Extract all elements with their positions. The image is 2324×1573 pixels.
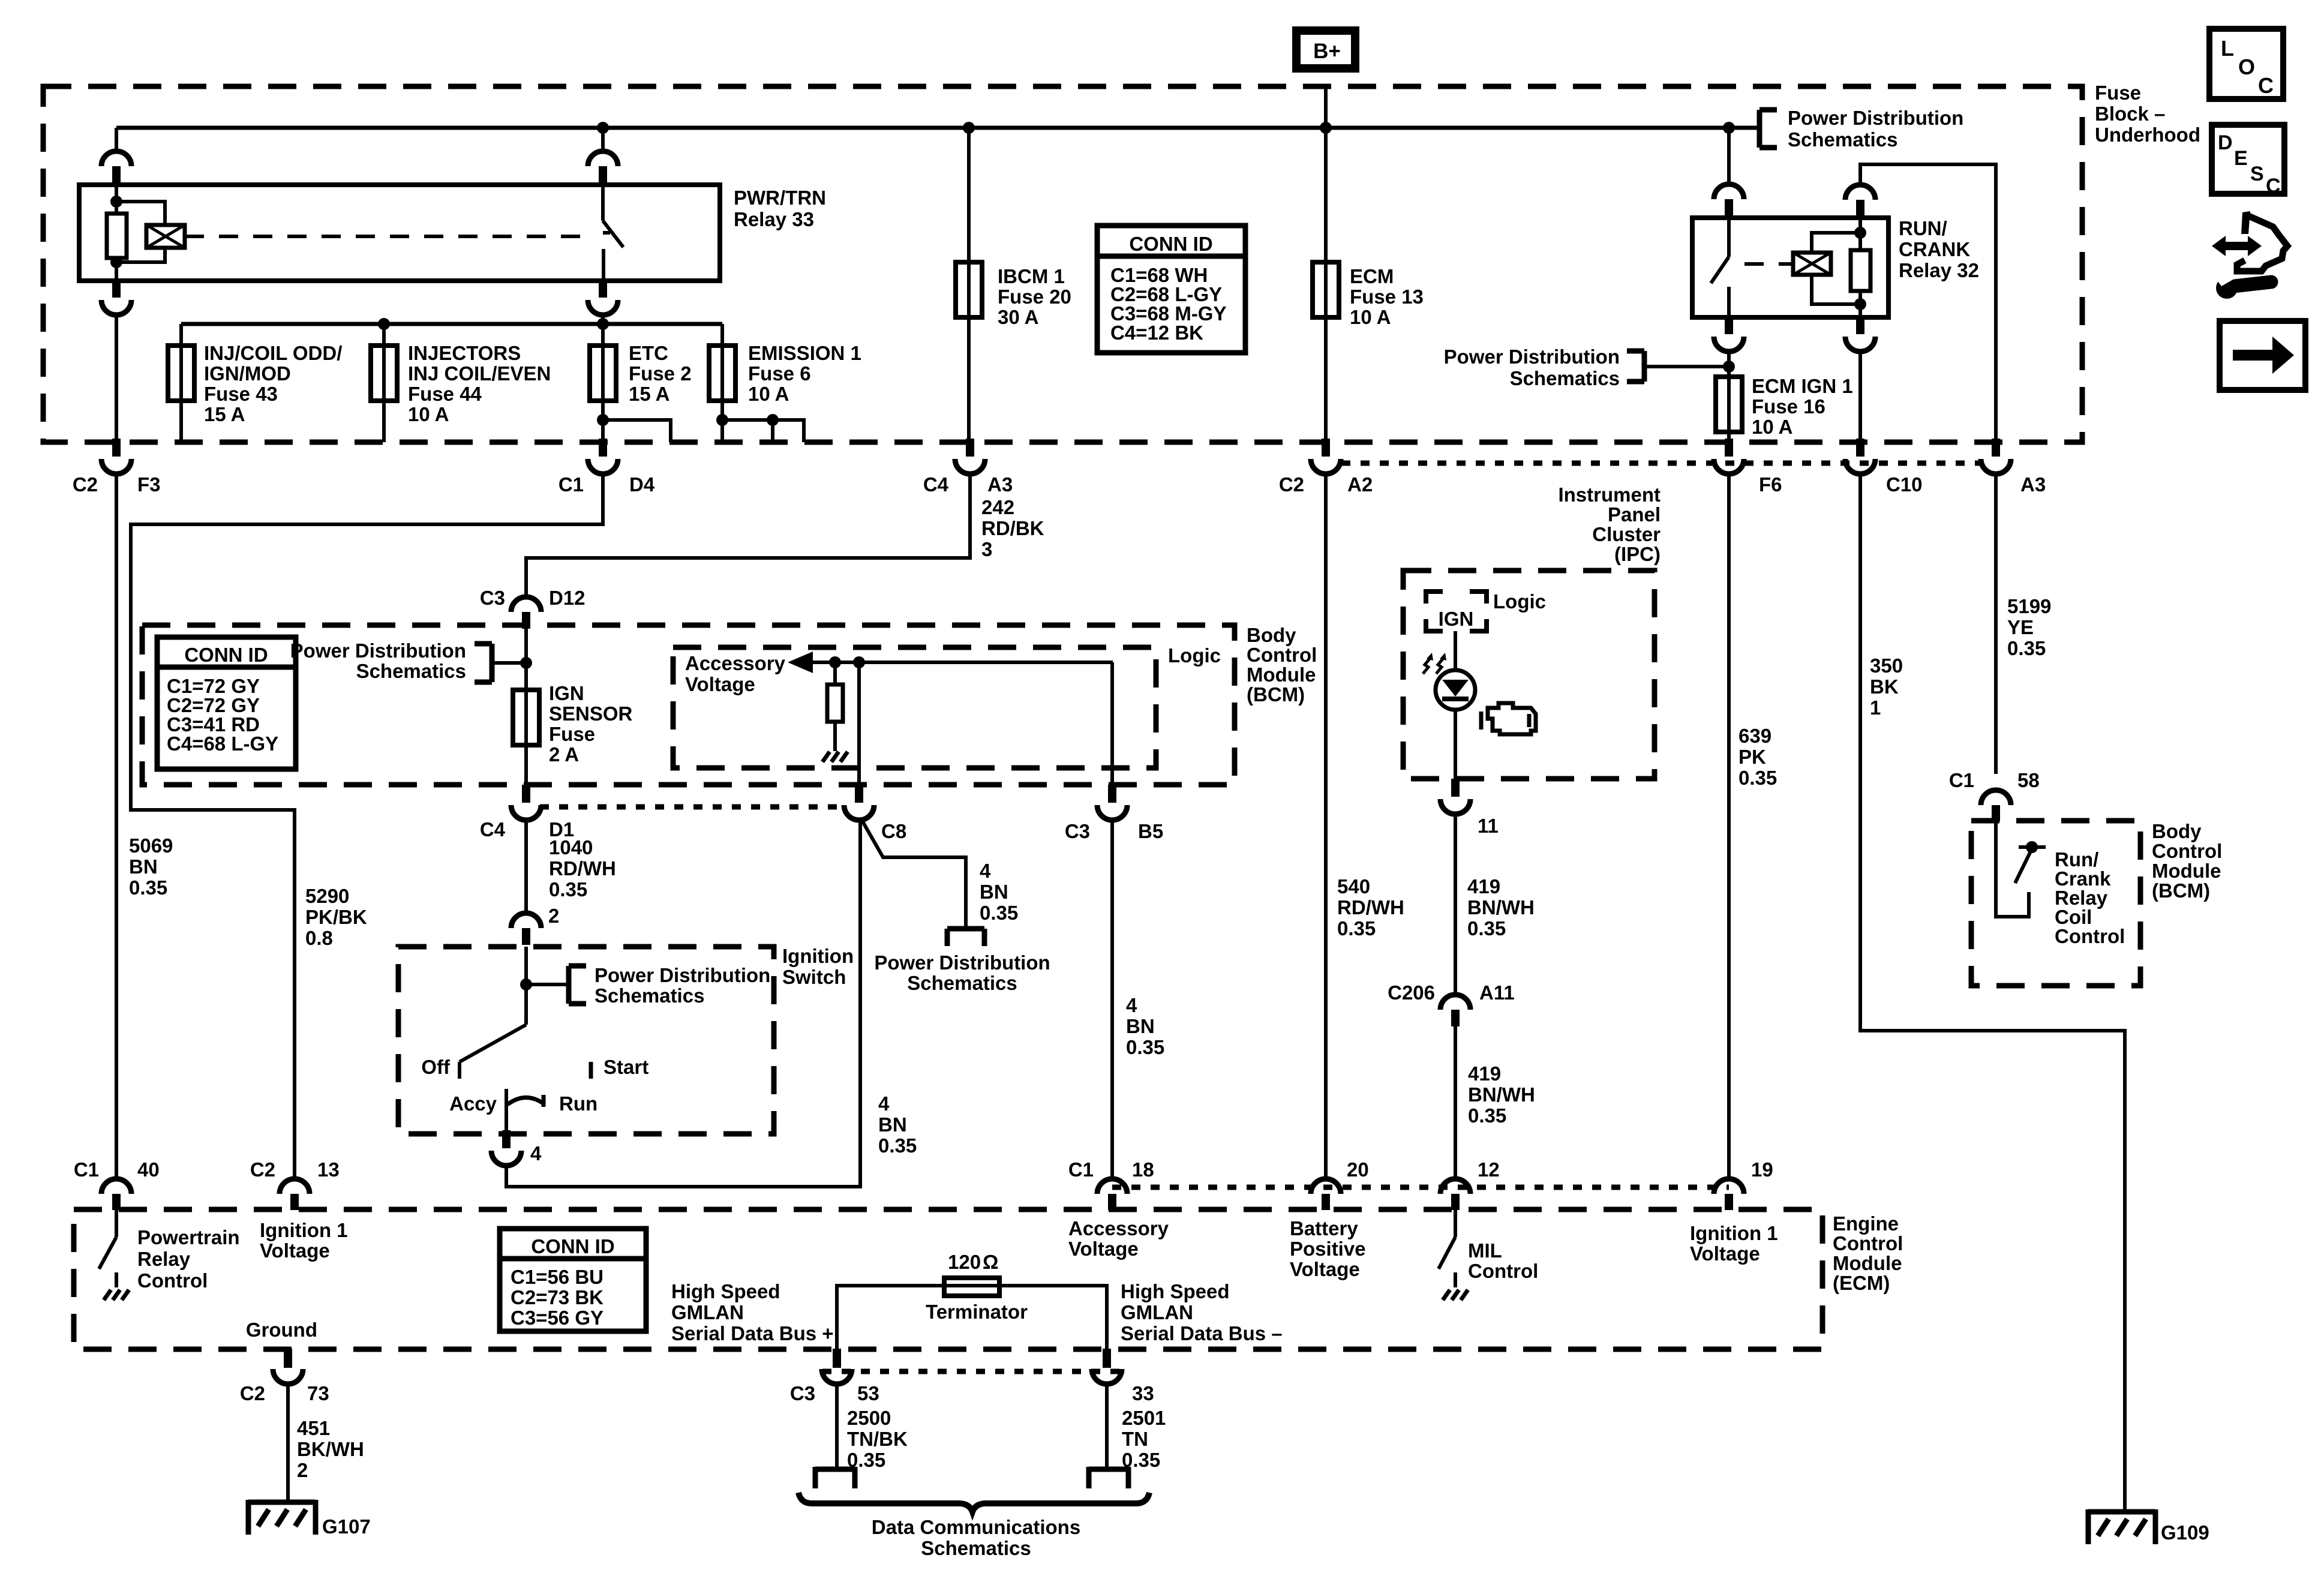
svg-text:Control: Control (137, 1269, 208, 1292)
svg-text:Control: Control (1468, 1260, 1538, 1282)
svg-text:INJECTORS: INJECTORS (408, 342, 521, 364)
svg-text:4: 4 (980, 860, 991, 882)
svg-text:419: 419 (1467, 875, 1500, 897)
svg-text:Fuse 13: Fuse 13 (1350, 286, 1424, 308)
svg-text:4: 4 (878, 1092, 890, 1115)
svg-text:C: C (2266, 175, 2281, 197)
svg-text:EMISSION 1: EMISSION 1 (748, 342, 861, 364)
svg-text:F3: F3 (137, 473, 161, 496)
svg-text:Schematics: Schematics (594, 984, 704, 1007)
svg-text:Battery: Battery (1290, 1217, 1358, 1239)
svg-text:242: 242 (981, 496, 1014, 518)
svg-text:10 A: 10 A (748, 383, 789, 405)
svg-text:Schematics: Schematics (907, 972, 1017, 994)
svg-text:BN: BN (129, 855, 158, 878)
svg-text:Voltage: Voltage (685, 673, 755, 695)
svg-text:C3: C3 (790, 1382, 815, 1404)
svg-text:Accy: Accy (449, 1092, 497, 1115)
svg-text:Body: Body (1247, 624, 1296, 646)
svg-text:C1=56 BU: C1=56 BU (511, 1266, 603, 1288)
svg-text:Ignition: Ignition (782, 945, 854, 967)
svg-text:MIL: MIL (1468, 1239, 1502, 1262)
svg-text:A11: A11 (1479, 981, 1515, 1004)
svg-text:0.35: 0.35 (1467, 917, 1506, 939)
svg-text:Logic: Logic (1168, 644, 1221, 667)
svg-text:D4: D4 (629, 473, 655, 496)
svg-text:4: 4 (530, 1142, 542, 1164)
svg-text:O: O (2238, 55, 2255, 79)
svg-text:CONN ID: CONN ID (1129, 233, 1212, 255)
svg-text:High Speed: High Speed (1121, 1280, 1230, 1302)
svg-text:TN: TN (1122, 1428, 1148, 1450)
svg-text:BN: BN (878, 1113, 907, 1136)
svg-text:IGN: IGN (549, 682, 584, 704)
svg-text:639: 639 (1739, 725, 1771, 747)
svg-text:Control: Control (1247, 644, 1317, 666)
svg-text:RUN/: RUN/ (1899, 217, 1947, 239)
svg-text:C2: C2 (250, 1158, 275, 1181)
svg-text:L: L (2221, 36, 2234, 61)
svg-text:2: 2 (548, 905, 559, 927)
svg-text:GMLAN: GMLAN (671, 1301, 744, 1323)
svg-text:Data Communications: Data Communications (872, 1516, 1080, 1538)
svg-text:Voltage: Voltage (1290, 1258, 1360, 1280)
svg-text:Relay 33: Relay 33 (734, 208, 814, 230)
svg-text:Module: Module (1833, 1252, 1902, 1274)
svg-text:350: 350 (1870, 655, 1903, 677)
svg-text:IGN/MOD: IGN/MOD (204, 362, 291, 385)
svg-text:0.35: 0.35 (847, 1449, 885, 1471)
svg-text:Off: Off (421, 1056, 451, 1078)
svg-text:0.35: 0.35 (1126, 1036, 1164, 1058)
svg-text:ETC: ETC (629, 342, 668, 364)
svg-text:5199: 5199 (2007, 595, 2051, 617)
svg-text:13: 13 (317, 1158, 340, 1181)
svg-text:5069: 5069 (129, 834, 173, 857)
svg-text:Module: Module (2152, 860, 2221, 882)
svg-text:20: 20 (1347, 1158, 1369, 1181)
svg-text:0.35: 0.35 (1739, 767, 1777, 789)
svg-text:Relay: Relay (137, 1248, 191, 1270)
svg-text:CRANK: CRANK (1899, 238, 1970, 260)
svg-text:451: 451 (297, 1417, 330, 1439)
svg-text:BK: BK (1870, 676, 1899, 698)
svg-text:73: 73 (307, 1382, 329, 1404)
svg-text:0.35: 0.35 (129, 876, 167, 899)
svg-text:0.8: 0.8 (305, 927, 333, 949)
svg-text:Engine: Engine (1833, 1212, 1899, 1235)
svg-text:ECM: ECM (1350, 265, 1394, 287)
svg-text:BN: BN (980, 881, 1008, 903)
svg-text:4: 4 (1126, 994, 1137, 1016)
svg-text:C2: C2 (73, 473, 98, 496)
svg-text:High Speed: High Speed (671, 1280, 780, 1302)
svg-text:C4: C4 (923, 473, 949, 496)
svg-text:Power Distribution: Power Distribution (290, 640, 466, 662)
svg-text:Accessory: Accessory (685, 652, 786, 674)
svg-text:C4=12 BK: C4=12 BK (1110, 322, 1203, 344)
svg-text:E: E (2234, 147, 2248, 170)
svg-text:Logic: Logic (1493, 590, 1546, 613)
svg-text:Voltage: Voltage (1690, 1242, 1760, 1265)
svg-text:Fuse 20: Fuse 20 (998, 286, 1071, 308)
svg-text:C1: C1 (74, 1158, 99, 1181)
svg-text:Voltage: Voltage (260, 1239, 330, 1262)
svg-text:Run: Run (559, 1092, 597, 1115)
svg-text:D12: D12 (549, 587, 585, 609)
svg-text:(IPC): (IPC) (1614, 543, 1661, 565)
svg-text:10 A: 10 A (1350, 306, 1391, 328)
svg-text:Panel: Panel (1608, 503, 1661, 526)
svg-text:(BCM): (BCM) (2152, 879, 2210, 902)
svg-text:Ground: Ground (246, 1319, 317, 1341)
svg-text:Ignition 1: Ignition 1 (260, 1219, 348, 1241)
svg-text:Fuse 16: Fuse 16 (1752, 395, 1825, 418)
svg-text:19: 19 (1751, 1158, 1773, 1181)
svg-text:Fuse 6: Fuse 6 (748, 362, 811, 385)
svg-text:G109: G109 (2161, 1521, 2209, 1544)
svg-text:Fuse 2: Fuse 2 (629, 362, 692, 385)
svg-text:BN: BN (1126, 1015, 1155, 1037)
svg-text:11: 11 (1478, 815, 1499, 837)
svg-text:Relay 32: Relay 32 (1899, 259, 1979, 281)
svg-text:0.35: 0.35 (1468, 1104, 1506, 1127)
svg-text:Powertrain: Powertrain (137, 1226, 240, 1248)
svg-text:BK/WH: BK/WH (297, 1438, 364, 1460)
svg-text:PK/BK: PK/BK (305, 906, 367, 928)
svg-text:3: 3 (981, 538, 992, 560)
svg-text:Schematics: Schematics (356, 660, 466, 682)
svg-text:12: 12 (1478, 1158, 1500, 1181)
svg-text:18: 18 (1132, 1158, 1154, 1181)
svg-text:Power Distribution: Power Distribution (594, 964, 770, 986)
svg-text:IBCM 1: IBCM 1 (998, 265, 1065, 287)
svg-text:15 A: 15 A (204, 403, 245, 425)
svg-text:C10: C10 (1886, 473, 1923, 496)
svg-text:C3: C3 (1065, 820, 1090, 842)
svg-text:SENSOR: SENSOR (549, 703, 633, 725)
svg-text:Voltage: Voltage (1068, 1238, 1139, 1260)
svg-text:30 A: 30 A (998, 306, 1038, 328)
svg-text:Cluster: Cluster (1592, 523, 1661, 545)
svg-text:2: 2 (297, 1459, 308, 1481)
svg-text:Schematics: Schematics (1788, 128, 1897, 151)
svg-text:Accessory: Accessory (1068, 1217, 1169, 1239)
svg-text:Fuse: Fuse (2095, 82, 2141, 104)
svg-text:0.35: 0.35 (549, 878, 587, 900)
svg-text:CONN ID: CONN ID (531, 1235, 614, 1257)
svg-text:C2: C2 (240, 1382, 265, 1404)
svg-text:YE: YE (2007, 616, 2034, 638)
svg-text:Module: Module (1247, 664, 1316, 686)
svg-text:BN/WH: BN/WH (1467, 896, 1535, 918)
svg-text:5290: 5290 (305, 885, 349, 907)
svg-text:G107: G107 (322, 1515, 371, 1538)
svg-text:D: D (2218, 131, 2233, 154)
svg-text:C3=56 GY: C3=56 GY (511, 1307, 603, 1329)
svg-text:15 A: 15 A (629, 383, 669, 405)
svg-text:CONN ID: CONN ID (184, 644, 268, 666)
svg-text:C: C (2258, 73, 2274, 98)
svg-text:Terminator: Terminator (926, 1301, 1028, 1323)
svg-text:10 A: 10 A (1752, 416, 1792, 438)
svg-text:INJ/COIL ODD/: INJ/COIL ODD/ (204, 342, 342, 364)
svg-text:C8: C8 (881, 820, 906, 842)
svg-text:0.35: 0.35 (980, 902, 1018, 924)
svg-text:33: 33 (1132, 1382, 1154, 1404)
svg-text:40: 40 (137, 1158, 160, 1181)
svg-text:Switch: Switch (782, 966, 846, 988)
svg-text:B+: B+ (1313, 40, 1341, 63)
svg-text:B5: B5 (1138, 820, 1163, 842)
svg-text:Block –: Block – (2095, 103, 2165, 125)
svg-text:C1: C1 (559, 473, 584, 496)
svg-text:540: 540 (1337, 875, 1370, 897)
svg-text:ECM IGN 1: ECM IGN 1 (1752, 375, 1853, 397)
svg-text:Power Distribution: Power Distribution (1788, 107, 1963, 129)
svg-text:2501: 2501 (1122, 1407, 1166, 1429)
svg-text:Underhood: Underhood (2095, 124, 2200, 146)
svg-text:0.35: 0.35 (1337, 917, 1376, 939)
svg-text:PWR/TRN: PWR/TRN (734, 187, 826, 209)
svg-text:Ignition 1: Ignition 1 (1690, 1222, 1778, 1244)
svg-text:C3: C3 (480, 587, 505, 609)
svg-text:Ω: Ω (983, 1251, 998, 1273)
svg-text:Body: Body (2152, 820, 2202, 842)
svg-text:A2: A2 (1347, 473, 1373, 496)
svg-text:Start: Start (603, 1056, 648, 1078)
svg-text:120: 120 (948, 1251, 981, 1273)
svg-text:INJ COIL/EVEN: INJ COIL/EVEN (408, 362, 551, 385)
svg-text:C4=68 L-GY: C4=68 L-GY (167, 733, 278, 755)
svg-text:BN/WH: BN/WH (1468, 1083, 1535, 1106)
svg-text:Schematics: Schematics (921, 1537, 1031, 1559)
svg-text:C2: C2 (1279, 473, 1304, 496)
svg-text:A3: A3 (987, 473, 1013, 496)
svg-text:Instrument: Instrument (1558, 484, 1661, 506)
svg-text:Fuse 44: Fuse 44 (408, 383, 482, 405)
svg-text:Control: Control (2152, 840, 2222, 862)
svg-text:C206: C206 (1388, 981, 1435, 1004)
svg-text:RD/BK: RD/BK (981, 517, 1044, 539)
svg-text:GMLAN: GMLAN (1121, 1301, 1193, 1323)
svg-text:10 A: 10 A (408, 403, 449, 425)
svg-text:Power Distribution: Power Distribution (874, 951, 1050, 974)
svg-text:Schematics: Schematics (1510, 367, 1620, 389)
svg-text:RD/WH: RD/WH (549, 857, 616, 879)
svg-text:Serial Data Bus –: Serial Data Bus – (1121, 1322, 1283, 1344)
svg-text:C1: C1 (1068, 1158, 1094, 1181)
svg-text:58: 58 (2017, 769, 2040, 791)
svg-text:419: 419 (1468, 1062, 1501, 1085)
svg-text:0.35: 0.35 (1122, 1449, 1160, 1471)
svg-text:(BCM): (BCM) (1247, 683, 1305, 706)
svg-text:C4: C4 (480, 818, 506, 840)
svg-text:2 A: 2 A (549, 743, 579, 766)
svg-text:Control: Control (2055, 925, 2125, 947)
svg-text:C2=73 BK: C2=73 BK (511, 1286, 603, 1308)
svg-text:Fuse 43: Fuse 43 (204, 383, 278, 405)
svg-text:A3: A3 (2020, 473, 2046, 496)
svg-text:Fuse: Fuse (549, 723, 595, 745)
svg-text:1: 1 (1870, 697, 1881, 719)
svg-text:2500: 2500 (847, 1407, 891, 1429)
svg-text:Positive: Positive (1290, 1238, 1366, 1260)
svg-text:0.35: 0.35 (2007, 637, 2046, 659)
svg-text:PK: PK (1739, 746, 1766, 768)
svg-text:TN/BK: TN/BK (847, 1428, 908, 1450)
svg-text:F6: F6 (1759, 473, 1782, 496)
svg-text:Power Distribution: Power Distribution (1444, 346, 1620, 368)
svg-text:Serial Data Bus +: Serial Data Bus + (671, 1322, 834, 1344)
svg-text:S: S (2250, 163, 2264, 185)
svg-text:1040: 1040 (549, 836, 593, 858)
svg-text:RD/WH: RD/WH (1337, 896, 1404, 918)
svg-text:(ECM): (ECM) (1833, 1272, 1890, 1294)
svg-text:53: 53 (857, 1382, 879, 1404)
svg-text:0.35: 0.35 (878, 1134, 917, 1157)
svg-text:IGN: IGN (1439, 608, 1474, 630)
svg-text:Control: Control (1833, 1232, 1903, 1254)
svg-text:C1: C1 (1949, 769, 1974, 791)
